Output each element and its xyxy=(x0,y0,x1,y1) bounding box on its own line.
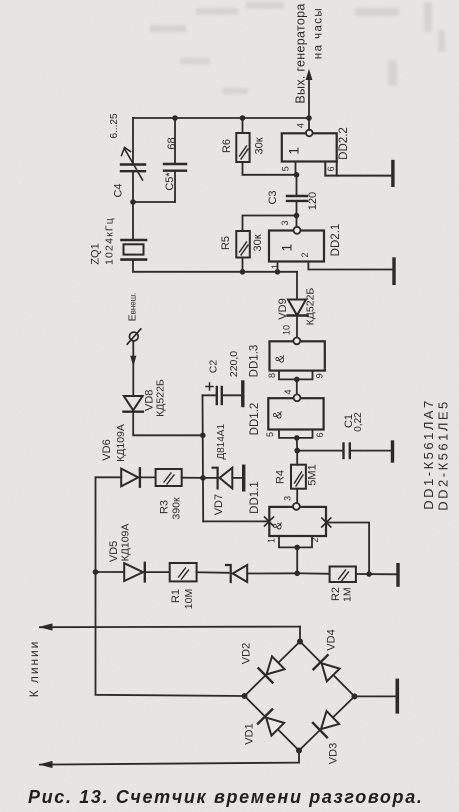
svg-text:К линии: К линии xyxy=(27,640,41,697)
wire DD2.1 pin1 stub xyxy=(277,262,279,272)
wire R6 bottom to DD2.2 input node xyxy=(243,162,297,175)
svg-text:Вых. генератора: Вых. генератора xyxy=(294,3,308,103)
crystal ZQ1 1024kHz xyxy=(90,217,147,265)
wire DD1.2 input tie xyxy=(279,430,313,438)
wire DD1.1 left stub xyxy=(203,520,269,522)
diode VD2 xyxy=(258,656,285,683)
node R5 feedback junction xyxy=(240,269,246,275)
svg-text:VD4: VD4 xyxy=(326,629,338,650)
pin 6 notch DD2.2 xyxy=(325,162,392,176)
svg-text:5: 5 xyxy=(265,432,275,437)
diode VD1 xyxy=(258,709,285,736)
x-mark right stub xyxy=(322,518,331,527)
wire DD1.3 inputs to DD1.2 output xyxy=(296,379,298,394)
connector E ext xyxy=(127,293,141,345)
node rail upper junction xyxy=(200,433,206,439)
svg-text:КД522Б: КД522Б xyxy=(155,379,167,417)
svg-text:R1: R1 xyxy=(170,589,182,603)
diode VD3 xyxy=(313,710,340,737)
svg-text:30к: 30к xyxy=(254,137,266,154)
svg-text:КД522Б: КД522Б xyxy=(305,288,317,326)
svg-text:6: 6 xyxy=(326,166,336,171)
svg-text:R5: R5 xyxy=(220,236,232,250)
svg-text:DD1.1: DD1.1 xyxy=(249,481,261,514)
node C1 branch xyxy=(294,448,300,454)
diode VD8 KD522B xyxy=(124,379,167,417)
svg-text:R4: R4 xyxy=(275,470,287,484)
svg-text:4: 4 xyxy=(296,123,306,128)
svg-text:на часы: на часы xyxy=(313,7,325,59)
wire bridge top stem xyxy=(299,627,301,642)
diode VD9 KD522B xyxy=(277,272,317,338)
svg-text:DD1.3: DD1.3 xyxy=(249,345,261,378)
wire crystal top xyxy=(132,202,134,240)
svg-text:1: 1 xyxy=(270,264,280,269)
svg-text:VD2: VD2 xyxy=(241,643,253,664)
ground for DD2.1 pin2 xyxy=(392,259,395,283)
wire VD5 row xyxy=(96,571,125,573)
svg-text:VD6: VD6 xyxy=(101,439,113,460)
wire DD1.1 right stub xyxy=(326,523,369,575)
svg-text:C5*: C5* xyxy=(164,172,176,191)
wire bridge bottom stem xyxy=(298,751,300,763)
node VD5 junction xyxy=(93,569,99,575)
wire VD6 row xyxy=(96,476,122,478)
svg-text:120: 120 xyxy=(307,192,319,210)
svg-text:1: 1 xyxy=(267,538,277,543)
resistor R2 xyxy=(330,567,396,602)
svg-text:C4: C4 xyxy=(113,183,125,197)
node DD2.1 pin1 xyxy=(275,269,281,275)
svg-text:R6: R6 xyxy=(221,139,233,153)
ground for C2 xyxy=(241,382,244,406)
diode VD6 KD109A xyxy=(101,424,156,487)
wire C4 bottom xyxy=(132,171,134,202)
svg-text:Евнеш.: Евнеш. xyxy=(127,293,139,322)
svg-text:КД109А: КД109А xyxy=(115,424,127,462)
svg-text:1: 1 xyxy=(285,147,301,155)
faint bleed-through marks xyxy=(150,2,445,94)
svg-text:ZQ1: ZQ1 xyxy=(90,243,102,264)
resistor R5 xyxy=(220,231,264,258)
wire crystal bottom to feedback rail xyxy=(133,260,297,272)
x-mark left stub xyxy=(265,517,274,526)
resistor R6 xyxy=(221,118,266,162)
svg-text:1М: 1М xyxy=(342,587,354,602)
node below DD1.1 xyxy=(294,571,300,577)
svg-text:С2: С2 xyxy=(208,360,220,374)
svg-text:КД109А: КД109А xyxy=(120,524,132,562)
ground for VD7 xyxy=(242,466,245,490)
ground for DD2.2 pin6 xyxy=(391,162,394,186)
node C4/crystal junction xyxy=(130,199,136,205)
node C3 bottom junction xyxy=(294,213,300,219)
svg-text:30к: 30к xyxy=(252,234,264,251)
svg-text:Д814А1: Д814А1 xyxy=(216,424,227,460)
node DD2.2 output xyxy=(306,115,312,121)
node DD1.3 inputs xyxy=(294,377,300,383)
node rail VD7 junction xyxy=(200,475,206,481)
capacitor C5 xyxy=(164,137,186,190)
wire clock output with arrow xyxy=(294,3,325,118)
wire to R2 xyxy=(297,572,329,575)
wire C3 node to R5 xyxy=(243,216,297,232)
capacitor C1 xyxy=(297,412,391,458)
svg-text:VD8: VD8 xyxy=(143,390,155,411)
svg-text:220,0: 220,0 xyxy=(228,351,240,377)
svg-text:6...25: 6...25 xyxy=(109,113,120,138)
bridge edges xyxy=(245,642,355,751)
node DD2.2 input junction xyxy=(294,172,300,178)
node R2 right junction xyxy=(366,571,372,577)
svg-text:DD1.2: DD1.2 xyxy=(249,403,261,436)
resistor R3 xyxy=(156,469,203,520)
svg-text:6: 6 xyxy=(315,432,325,437)
gate DD1.1 xyxy=(249,481,326,543)
svg-text:0,22: 0,22 xyxy=(353,412,364,432)
node DD1.1 inputs xyxy=(294,545,300,551)
diode VD4 xyxy=(313,655,340,682)
diode series unmarked xyxy=(226,565,297,582)
svg-text:3: 3 xyxy=(283,496,293,501)
svg-text:VD9: VD9 xyxy=(277,298,289,319)
gate DD1.3 xyxy=(249,325,325,378)
wire AC upper line with arrow to line xyxy=(27,623,300,697)
svg-text:&: & xyxy=(271,411,285,419)
node bridge left xyxy=(242,693,248,699)
svg-text:VD3: VD3 xyxy=(328,743,340,764)
wire connector to VD8 with arrow xyxy=(130,341,136,396)
wire VD8 to rail xyxy=(133,412,203,436)
svg-text:390к: 390к xyxy=(171,497,183,520)
svg-text:VD7: VD7 xyxy=(213,494,225,515)
svg-text:1: 1 xyxy=(279,244,295,252)
svg-text:DD2.2: DD2.2 xyxy=(338,127,350,160)
wire AC lower line with arrow xyxy=(39,761,300,768)
svg-text:2: 2 xyxy=(300,252,310,257)
op-amp? gate DD2.2 xyxy=(280,123,350,171)
resistor R4 xyxy=(275,451,319,503)
node bridge top xyxy=(297,639,303,645)
svg-text:3: 3 xyxy=(280,220,290,225)
node C5 top junction xyxy=(172,115,178,121)
ground for bridge xyxy=(395,680,399,711)
wire DD1.3 input tie xyxy=(279,371,313,380)
svg-text:C3: C3 xyxy=(267,190,279,204)
svg-text:DD2.1: DD2.1 xyxy=(330,224,342,257)
gate DD2.1 xyxy=(269,220,342,269)
zener VD7 D814A1 xyxy=(203,424,242,516)
svg-text:DD1-К561ЛА7: DD1-К561ЛА7 xyxy=(421,398,436,510)
svg-text:DD2-К561ЛЕ5: DD2-К561ЛЕ5 xyxy=(436,399,451,511)
wire C4 branch top xyxy=(132,118,134,165)
ground for C1 xyxy=(391,442,394,461)
node R6 top xyxy=(240,115,246,121)
svg-text:R3: R3 xyxy=(159,500,171,514)
wire top rail xyxy=(133,117,309,119)
svg-text:VD1: VD1 xyxy=(244,723,256,744)
svg-text:8: 8 xyxy=(267,373,277,378)
capacitor C4 (variable) xyxy=(109,113,145,197)
wire R5 bottom xyxy=(242,258,244,272)
svg-text:VD5: VD5 xyxy=(108,541,120,562)
gate DD1.2 xyxy=(249,389,325,437)
wire DD2.2 pin5 stub xyxy=(295,162,297,175)
svg-text:R2: R2 xyxy=(330,587,342,601)
node bridge right xyxy=(352,693,358,699)
ground for R2 xyxy=(396,565,399,585)
svg-text:1024кГц: 1024кГц xyxy=(104,217,116,265)
svg-text:10М: 10М xyxy=(183,589,195,609)
capacitor C3 xyxy=(267,175,319,216)
diode VD5 KD109A xyxy=(108,524,170,582)
resistor R1 xyxy=(170,563,229,609)
svg-text:9: 9 xyxy=(315,373,325,378)
svg-text:68: 68 xyxy=(166,137,178,149)
wire DD2.2 output stub xyxy=(308,118,310,130)
svg-text:10: 10 xyxy=(282,325,292,335)
wire right rail xyxy=(202,395,205,521)
svg-text:Рис. 13. Счетчик времени разго: Рис. 13. Счетчик времени разговора. xyxy=(28,787,424,807)
node DD1.2 inputs xyxy=(294,435,300,441)
wire DD1.1 input tie xyxy=(279,536,312,547)
svg-text:4: 4 xyxy=(283,389,293,394)
svg-text:&: & xyxy=(273,355,287,363)
svg-text:5: 5 xyxy=(280,166,290,171)
wire bridge right to ground xyxy=(355,695,396,697)
wire DD1.2 inputs down xyxy=(296,438,298,451)
wire left rail xyxy=(96,477,245,696)
wire DD1.1 inputs down to rail xyxy=(296,547,298,573)
wire DD2.1 pin2 to ground xyxy=(308,262,391,270)
wire C3 node to DD2.1 output xyxy=(296,216,298,228)
wire C5 branch top xyxy=(174,118,176,164)
node bridge bottom xyxy=(296,748,302,754)
capacitor C2 (electrolytic) xyxy=(203,351,242,404)
svg-text:5М1: 5М1 xyxy=(307,464,319,485)
wire C5 bottom xyxy=(174,171,176,202)
wire C4-C5 bottom link xyxy=(133,201,175,203)
